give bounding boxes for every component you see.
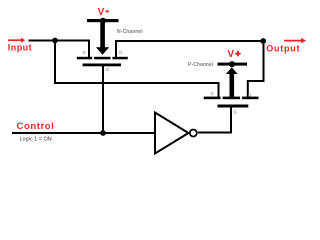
svg-text:G: G	[106, 67, 110, 72]
svg-text:Logic 1 = ON: Logic 1 = ON	[20, 137, 52, 143]
svg-text:N-Channel: N-Channel	[117, 29, 143, 35]
svg-text:S: S	[211, 91, 214, 96]
svg-text:G: G	[233, 109, 237, 114]
svg-text:S: S	[83, 50, 86, 55]
svg-text:V: V	[98, 7, 105, 18]
svg-text:V: V	[227, 49, 234, 60]
svg-text:Control: Control	[17, 121, 54, 132]
svg-text:P-Channel: P-Channel	[188, 62, 213, 68]
svg-text:Input: Input	[8, 42, 32, 52]
svg-text:Output: Output	[266, 43, 299, 53]
